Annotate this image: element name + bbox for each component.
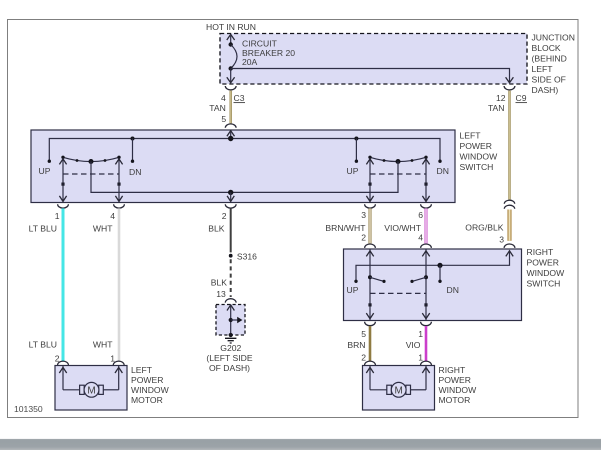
svg-text:M: M <box>395 385 403 396</box>
wire BLK <box>230 208 232 252</box>
svg-text:DN: DN <box>437 166 449 176</box>
svg-text:6: 6 <box>418 210 423 220</box>
svg-text:TAN: TAN <box>488 103 505 113</box>
wire TAN (C9 down) <box>508 91 510 200</box>
circuit breaker 20 20A <box>227 34 237 82</box>
connector frown at ground box <box>225 299 236 303</box>
svg-text:2: 2 <box>361 353 366 363</box>
bottom grey bar <box>0 439 601 450</box>
entry frowns right switch <box>365 244 376 248</box>
svg-text:SWITCH: SWITCH <box>527 279 561 289</box>
svg-text:2: 2 <box>222 211 227 221</box>
output line pin4 <box>115 158 122 201</box>
through line pin4 right <box>422 249 429 320</box>
svg-text:SWITCH: SWITCH <box>460 162 494 172</box>
contact UP left <box>48 160 51 163</box>
motor M left <box>59 366 122 397</box>
svg-text:LEFT: LEFT <box>131 365 153 375</box>
svg-text:BLK: BLK <box>208 224 225 234</box>
svg-text:3: 3 <box>361 210 366 220</box>
mechanical link left <box>63 173 119 175</box>
svg-text:101350: 101350 <box>14 404 43 414</box>
svg-text:WINDOW: WINDOW <box>439 385 478 395</box>
left power window motor box <box>55 366 127 411</box>
connector C9 cup <box>504 86 515 90</box>
wire VIO <box>425 326 428 361</box>
output line pin1 <box>59 158 66 201</box>
motor M right <box>366 366 429 397</box>
svg-text:C9: C9 <box>516 93 527 103</box>
entry frowns left motor <box>58 361 69 365</box>
switch arm right <box>410 277 426 283</box>
exit cups right switch <box>365 322 376 326</box>
svg-text:WINDOW: WINDOW <box>460 152 499 162</box>
svg-text:WHT: WHT <box>93 340 113 350</box>
svg-text:RIGHT: RIGHT <box>439 365 466 375</box>
feed bus right switch <box>354 251 513 283</box>
output line pin3 <box>366 158 373 201</box>
rocker arm left group <box>61 156 120 164</box>
svg-text:WINDOW: WINDOW <box>131 385 170 395</box>
svg-text:BRN: BRN <box>347 340 365 350</box>
exit cups below left switch <box>58 204 69 208</box>
splice S316 <box>229 252 257 262</box>
svg-text:5: 5 <box>221 114 226 124</box>
contact drop UP right <box>355 139 358 163</box>
svg-text:UP: UP <box>39 166 51 176</box>
wire LT BLU <box>62 208 65 361</box>
svg-text:BRN/WHT: BRN/WHT <box>325 223 366 233</box>
right power window motor box <box>363 366 435 411</box>
svg-text:1: 1 <box>55 211 60 221</box>
node: DN left junction <box>131 137 135 141</box>
svg-text:POWER: POWER <box>131 375 163 385</box>
svg-text:RIGHT: RIGHT <box>527 247 554 257</box>
switch arm left <box>370 277 386 283</box>
svg-text:C3: C3 <box>234 93 245 103</box>
connector name C3 <box>234 93 246 103</box>
svg-text:LT BLU: LT BLU <box>29 340 57 350</box>
right power window switch box <box>344 249 522 321</box>
svg-text:13: 13 <box>216 289 226 299</box>
contact DN right <box>438 160 441 163</box>
wire BRN <box>369 326 372 361</box>
svg-text:LEFT: LEFT <box>460 131 482 141</box>
svg-text:ORG/BLK: ORG/BLK <box>465 223 503 233</box>
svg-text:12: 12 <box>496 93 506 103</box>
mechanical link right switch <box>370 292 426 294</box>
wire BRN/WHT <box>369 208 372 243</box>
svg-text:G202: G202 <box>220 343 241 353</box>
svg-text:MOTOR: MOTOR <box>131 395 163 405</box>
svg-text:S316: S316 <box>237 252 257 262</box>
svg-text:LEFT: LEFT <box>532 64 554 74</box>
connector name C9 <box>516 93 528 103</box>
ground dashed box G202 <box>216 305 245 336</box>
svg-text:4: 4 <box>110 211 115 221</box>
ground internal lead <box>227 305 242 338</box>
svg-text:VIO: VIO <box>406 340 421 350</box>
svg-text:4: 4 <box>418 233 423 243</box>
rocker arm right group <box>368 156 427 164</box>
wire TAN (C3 to switch) <box>229 91 231 124</box>
svg-text:LT BLU: LT BLU <box>29 224 57 234</box>
svg-text:JUNCTION: JUNCTION <box>532 33 575 43</box>
contact drop DN left <box>131 139 134 163</box>
entry arrow pin5 <box>227 131 235 139</box>
svg-text:VIO/WHT: VIO/WHT <box>384 223 422 233</box>
svg-text:TAN: TAN <box>209 103 226 113</box>
through line pin2 right <box>366 249 373 320</box>
ground symbol <box>225 338 236 343</box>
svg-text:POWER: POWER <box>527 258 559 268</box>
svg-text:HOT IN RUN: HOT IN RUN <box>206 22 256 32</box>
wire: feed inside junction block to C9 <box>231 69 514 83</box>
svg-text:OF DASH): OF DASH) <box>209 363 250 373</box>
svg-text:BLOCK: BLOCK <box>532 43 561 53</box>
svg-text:BLK: BLK <box>211 277 228 287</box>
svg-text:POWER: POWER <box>439 375 471 385</box>
svg-text:1: 1 <box>418 353 423 363</box>
connector frown right switch feed <box>504 244 515 248</box>
mechanical link right <box>370 173 426 175</box>
svg-text:WINDOW: WINDOW <box>527 268 566 278</box>
wire VIO/WHT <box>425 208 428 243</box>
svg-text:MOTOR: MOTOR <box>439 395 471 405</box>
svg-text:5: 5 <box>361 329 366 339</box>
svg-text:4: 4 <box>221 93 226 103</box>
output line pin6 <box>422 158 429 201</box>
svg-text:(BEHIND: (BEHIND <box>532 54 567 64</box>
node: UP right junction <box>354 137 358 141</box>
svg-text:1: 1 <box>418 329 423 339</box>
svg-text:WHT: WHT <box>93 224 113 234</box>
svg-text:(LEFT SIDE: (LEFT SIDE <box>206 353 252 363</box>
svg-text:DN: DN <box>447 285 459 295</box>
entry frowns right motor <box>365 361 376 365</box>
svg-text:3: 3 <box>499 234 504 244</box>
svg-text:DN: DN <box>129 167 141 177</box>
wire BLK dashed to ground <box>230 259 232 297</box>
wire WHT <box>118 208 121 361</box>
svg-text:POWER: POWER <box>460 141 492 151</box>
svg-text:SIDE OF: SIDE OF <box>532 75 566 85</box>
inline connector chevrons <box>504 200 514 209</box>
svg-text:DASH): DASH) <box>532 85 559 95</box>
svg-text:M: M <box>87 385 95 396</box>
node: feed junction big <box>228 136 233 141</box>
connector C3 cup <box>225 86 236 90</box>
svg-text:2: 2 <box>361 233 366 243</box>
svg-text:20A: 20A <box>242 57 258 67</box>
left power window switch box <box>31 130 455 203</box>
switch top feed wire <box>49 139 440 161</box>
svg-text:UP: UP <box>347 166 359 176</box>
common pole bus <box>91 162 398 193</box>
wire ORG/BLK <box>507 210 511 241</box>
junction block dashed box <box>220 34 527 85</box>
connector frown at switch pin 5 <box>225 124 236 128</box>
output line pin2 BLK <box>227 192 234 201</box>
svg-text:UP: UP <box>347 285 359 295</box>
node: common junction <box>228 190 233 195</box>
